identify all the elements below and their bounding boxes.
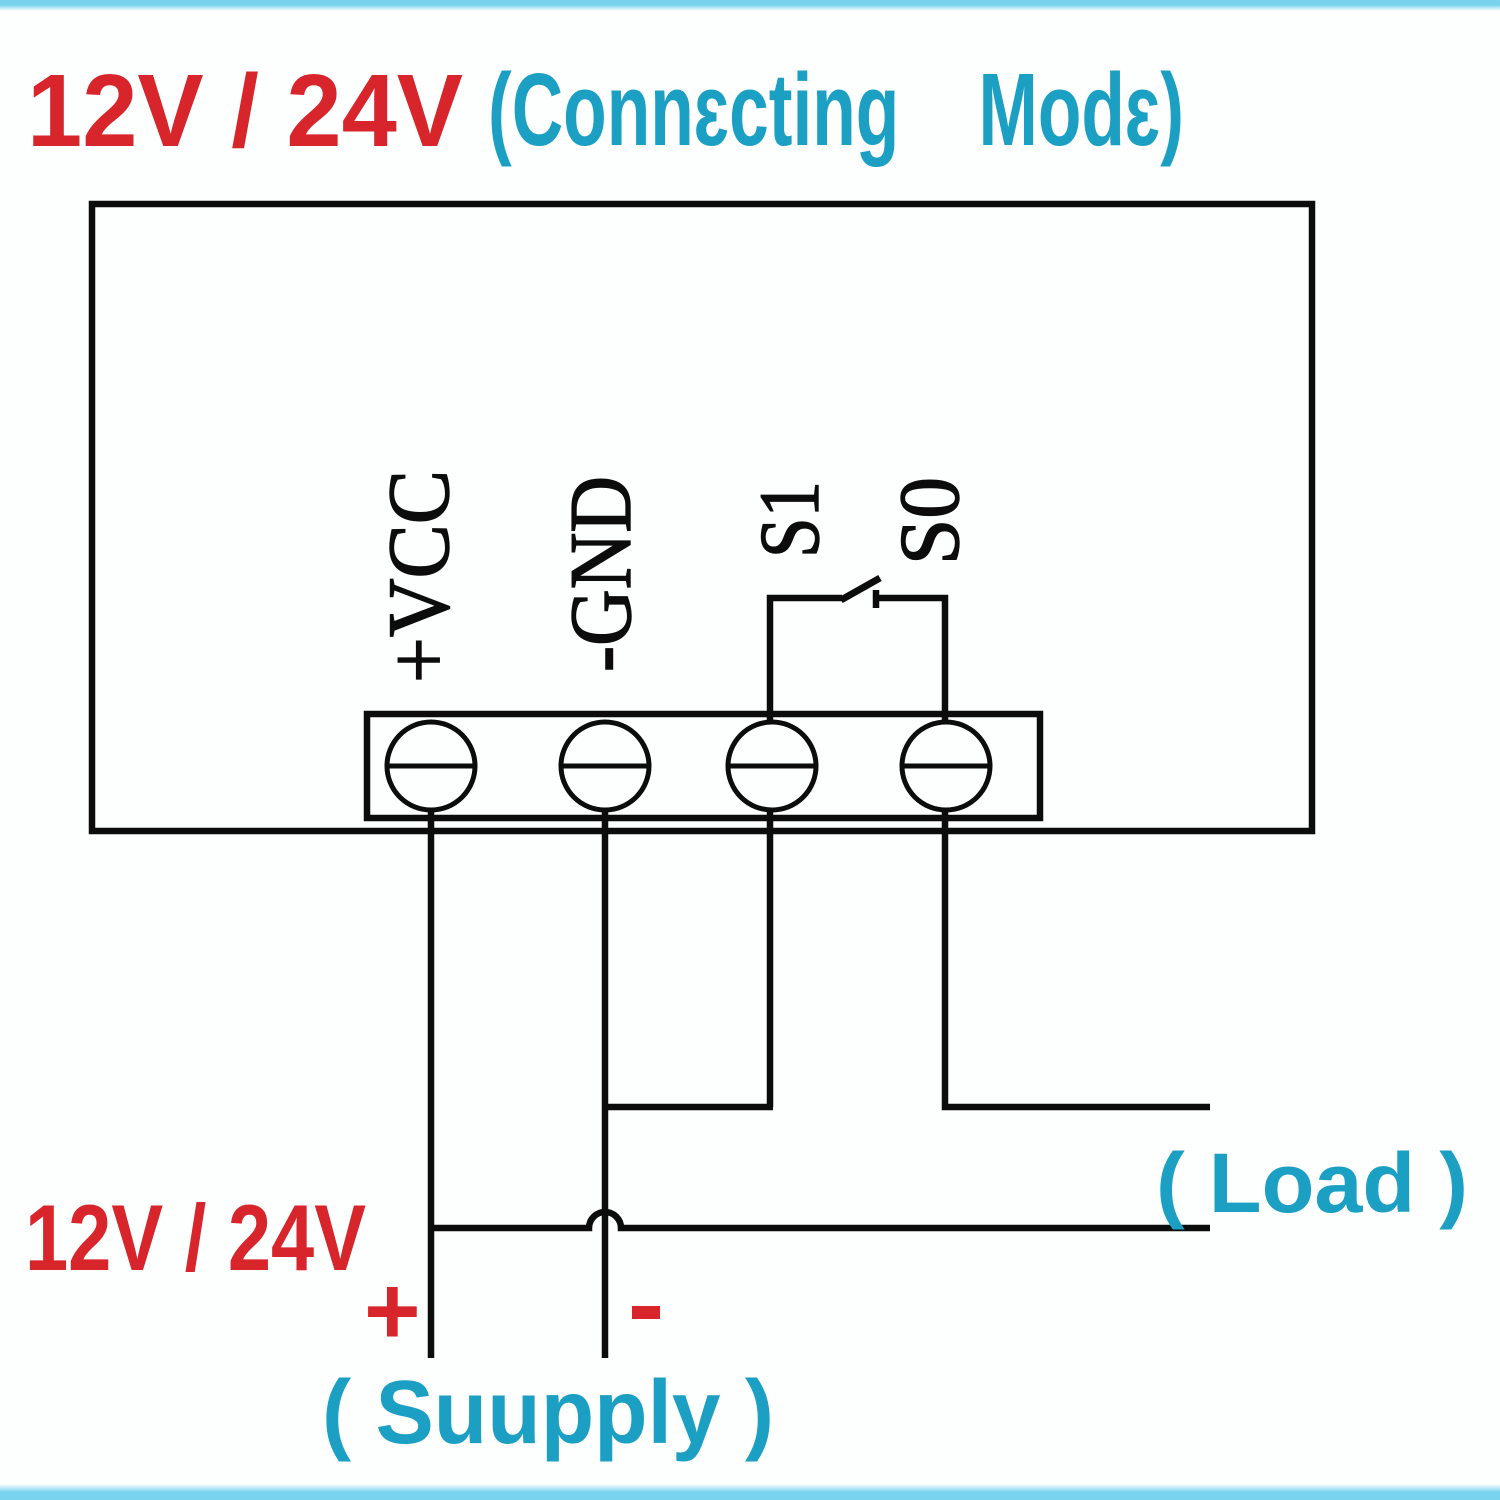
terminal 4 screw (S0)	[902, 722, 990, 810]
switch SW1 fixed contact tick	[873, 590, 880, 608]
terminal 1 screw (+VCC)	[387, 722, 475, 810]
terminal 3 screw (S1)	[728, 722, 816, 810]
svg-text:+VCC: +VCC	[371, 470, 468, 683]
wire: +VCC supply line to Load with hop over GND	[431, 1212, 1210, 1228]
wire: S0 terminal down and right to Load	[945, 811, 1210, 1107]
label - (supply negative)	[632, 1306, 660, 1319]
svg-text:S1: S1	[741, 481, 837, 558]
svg-text:( Suupply ): ( Suupply )	[322, 1363, 774, 1463]
top border bar	[0, 0, 1500, 5]
svg-text:( Load ): ( Load )	[1156, 1136, 1468, 1230]
wire: GND to S1 horizontal link	[605, 1104, 773, 1111]
svg-text:S0: S0	[881, 477, 977, 565]
wire: S1 terminal down	[767, 811, 774, 1107]
controller box U1	[92, 204, 1312, 831]
switch SW1 blade	[841, 578, 880, 600]
svg-text:+: +	[364, 1256, 421, 1365]
wire: S1 terminal up to switch left	[770, 598, 842, 722]
svg-text:12V / 24V: 12V / 24V	[25, 1185, 366, 1290]
wire: -GND terminal down to supply -	[602, 811, 609, 1358]
svg-text:-GND: -GND	[553, 476, 650, 672]
wire: switch right to S0 terminal	[876, 598, 945, 722]
bottom border bar	[0, 1484, 1500, 1492]
wire: +VCC terminal down to supply +	[428, 811, 435, 1358]
terminal strip TB1	[367, 714, 1040, 818]
svg-text:12V / 24V: 12V / 24V	[27, 53, 463, 168]
terminal 2 screw (-GND)	[561, 722, 649, 810]
svg-text:(Connɛcting Modɛ): (Connɛcting Modɛ)	[488, 52, 1184, 167]
